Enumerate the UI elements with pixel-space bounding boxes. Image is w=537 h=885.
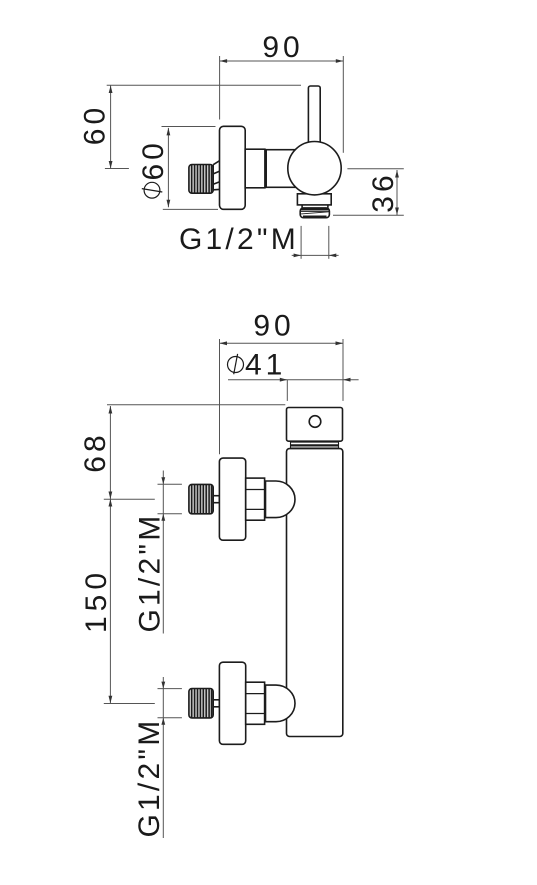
svg-text:68: 68 xyxy=(79,431,112,472)
inlet 2 hex adapter xyxy=(246,682,265,724)
thread dim inlet 1: dimension line xyxy=(158,471,182,634)
cap ring xyxy=(291,442,339,448)
inlet nipple thread (top view) xyxy=(189,165,213,194)
svg-text:41: 41 xyxy=(245,349,286,382)
thread dim inlet 2: dimension line xyxy=(158,677,182,838)
svg-text:G1/2"M: G1/2"M xyxy=(134,513,167,633)
dim G1/2M (top): extension lines xyxy=(292,226,339,259)
outlet block under body xyxy=(297,194,331,205)
inlet union cone (top view) xyxy=(213,161,219,190)
dim phi41: dimension line xyxy=(228,380,359,401)
dim 36: dimension line xyxy=(333,169,404,215)
svg-text:150: 150 xyxy=(80,568,113,633)
dim G1/2M (top): arrowheads xyxy=(294,254,302,258)
dim phi60: diameter symbol xyxy=(142,182,163,198)
inlet 2 dome connector xyxy=(266,685,296,722)
dim 68: arrowheads xyxy=(109,406,113,414)
dim phi41: arrowheads xyxy=(280,378,288,382)
dim 90 top: arrowheads xyxy=(220,59,228,63)
handle lever xyxy=(308,86,320,150)
dim 60 left: arrowheads xyxy=(109,86,113,94)
dim phi41: diameter symbol xyxy=(228,354,244,374)
valve body section B xyxy=(266,150,295,188)
dim 150: arrowheads xyxy=(109,499,113,507)
outlet neck xyxy=(302,205,328,208)
dim 90 bottom: arrowheads xyxy=(220,341,228,345)
inlet 2 escutcheon xyxy=(219,662,245,744)
mixer body circle xyxy=(288,142,341,195)
dim 150: dimension line xyxy=(104,499,155,704)
thread dim inlet 1: arrowheads xyxy=(161,477,165,484)
inlet 1 escutcheon xyxy=(219,458,245,540)
dim 90 top: dimension line xyxy=(220,56,344,153)
top cap xyxy=(287,408,343,442)
svg-text:G1/2"M: G1/2"M xyxy=(179,223,299,256)
svg-text:36: 36 xyxy=(367,171,400,212)
inlet 1 hex adapter xyxy=(246,478,265,520)
dim 90 bottom: dimension line xyxy=(220,339,344,454)
inlet 1 dome connector xyxy=(266,481,295,518)
inlet 2 stub xyxy=(213,700,219,707)
svg-text:G1/2"M: G1/2"M xyxy=(133,718,166,838)
dim phi60: dimension line xyxy=(162,127,219,210)
inlet 2 thread xyxy=(189,689,213,718)
inlet 1 stub xyxy=(213,496,219,503)
cap hole xyxy=(309,416,321,428)
dim 36: arrowheads xyxy=(395,170,399,178)
outlet thread stub xyxy=(300,208,329,218)
inlet 1 thread xyxy=(189,484,213,513)
thread dim inlet 2: arrowheads xyxy=(161,682,165,689)
svg-text:90: 90 xyxy=(262,31,303,64)
svg-text:60: 60 xyxy=(78,104,111,145)
valve body section A xyxy=(245,149,265,188)
dim 60 left: dimension line xyxy=(105,85,301,168)
dim phi60: arrowheads xyxy=(167,128,171,135)
wall escutcheon (top view) xyxy=(220,126,246,209)
svg-text:60: 60 xyxy=(137,139,170,180)
svg-text:90: 90 xyxy=(253,310,294,343)
bar column xyxy=(287,449,343,737)
dim 68: dimension line xyxy=(104,405,285,500)
